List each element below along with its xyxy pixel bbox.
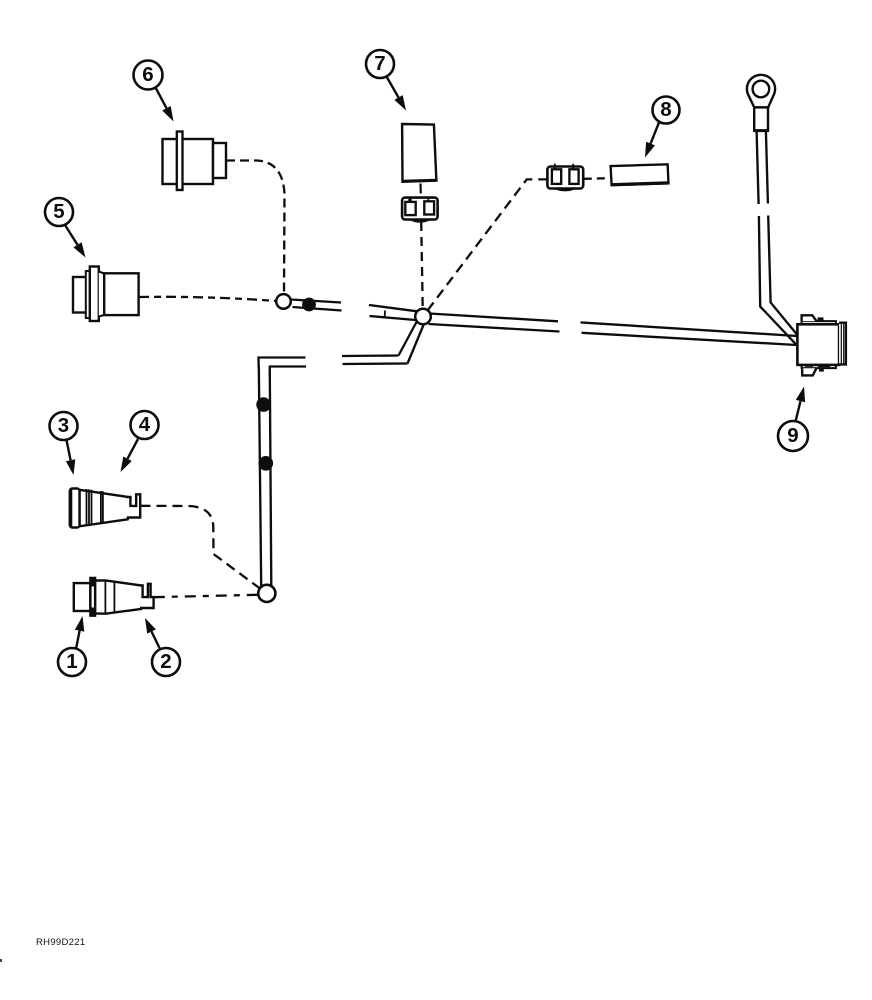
connector 6 body bbox=[163, 132, 227, 191]
callout circle 4 bbox=[131, 411, 159, 439]
trunk segment: break to junction J bbox=[369, 305, 417, 311]
white junction circle A bbox=[276, 294, 291, 309]
dashed diagonal from junction J to item 8 bbox=[428, 179, 548, 310]
black junction dot D1 bbox=[256, 397, 271, 412]
trunk vertical pair down to junction C bbox=[259, 366, 261, 586]
number labels bbox=[66, 652, 77, 673]
trunk segment: junction A to break bbox=[291, 300, 341, 303]
wire from connector 6 (dashed, curves down) bbox=[226, 161, 285, 295]
arrow 7 bbox=[387, 77, 399, 98]
trunk horizontal to break bbox=[342, 354, 399, 357]
trunk horizontal left piece with corner bbox=[259, 358, 306, 369]
ring terminal (item 9 wire end) bbox=[747, 75, 775, 131]
callout circle 3 bbox=[50, 412, 78, 440]
dashed wire from connector 1/2 bbox=[154, 595, 257, 597]
callout circle 8 bbox=[653, 97, 680, 124]
callout circle 5 bbox=[45, 198, 73, 226]
tick mark on trunk bbox=[384, 311, 386, 319]
wire from connector 5 (dashed) bbox=[139, 297, 276, 301]
dashed wire from connector 3/4 bbox=[141, 506, 261, 589]
arrow 2 bbox=[152, 632, 161, 650]
callout circle 1 bbox=[58, 648, 86, 676]
dashed between item 8 connector and resistor bbox=[584, 177, 610, 180]
arrow 5 bbox=[65, 225, 78, 245]
speck bbox=[0, 959, 2, 962]
connector 5 body bbox=[73, 267, 139, 322]
arrow 4 bbox=[128, 439, 139, 459]
dashed vertical from item 7 to junction J bbox=[419, 184, 421, 194]
arrow 1 bbox=[76, 631, 80, 649]
item 7 two-cavity connector bbox=[402, 197, 438, 222]
trunk right: break to connector 9 bbox=[581, 322, 798, 336]
item 8 resistor block bbox=[611, 164, 669, 185]
arrow 9 bbox=[796, 401, 801, 421]
black junction dot D2 bbox=[259, 456, 274, 471]
callout circle 9 bbox=[778, 421, 808, 451]
callout circle 6 bbox=[134, 61, 163, 90]
trunk right: junction J to break bbox=[430, 314, 559, 322]
arrow 3 bbox=[67, 440, 71, 460]
connector 9 body bbox=[797, 315, 846, 375]
item 7 rectangle (flasher) bbox=[402, 124, 436, 182]
connector 3/4 body bbox=[70, 489, 140, 528]
black junction dot B bbox=[302, 298, 316, 312]
arrow 8 bbox=[651, 123, 659, 144]
connector 1/2 body bbox=[74, 578, 154, 616]
arrow 6 bbox=[156, 88, 167, 109]
trunk down-left diagonal from junction J bbox=[399, 322, 417, 356]
item 8 two-cavity connector bbox=[547, 164, 583, 191]
white junction circle C bbox=[258, 585, 275, 602]
callout circle 2 bbox=[152, 648, 180, 676]
ring terminal wire pair bbox=[757, 131, 759, 204]
white junction circle J bbox=[415, 309, 431, 325]
callout circle 7 bbox=[366, 50, 394, 78]
